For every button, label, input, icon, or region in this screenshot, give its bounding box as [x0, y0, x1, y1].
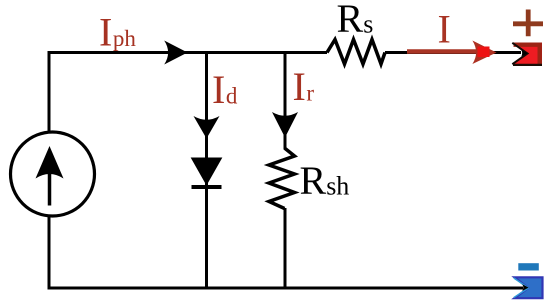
svg-text:Iph: Iph [99, 10, 136, 55]
svg-text:Ir: Ir [293, 64, 315, 109]
svg-text:Rs: Rs [337, 0, 374, 41]
svg-text:Id: Id [212, 67, 238, 112]
svg-text:Rsh: Rsh [300, 158, 350, 203]
svg-text:I: I [438, 7, 451, 52]
